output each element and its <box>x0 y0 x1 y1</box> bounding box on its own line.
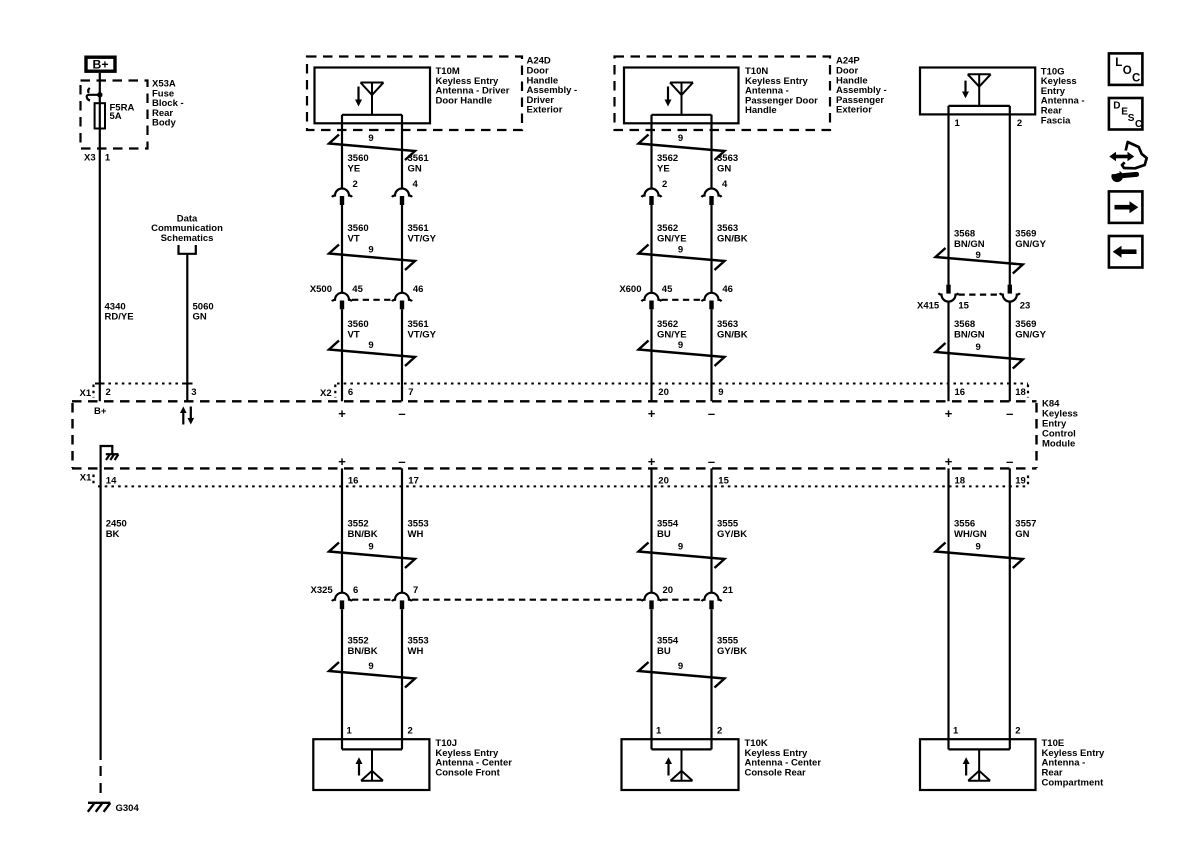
antenna T10K box <box>622 739 739 790</box>
X600 connector dashed line <box>662 299 702 301</box>
terminal pin <box>649 301 653 310</box>
svg-text:BN/GN: BN/GN <box>954 329 985 340</box>
terminal pin <box>400 301 404 310</box>
wire 3554 BU lower segment <box>650 609 652 749</box>
K84 module outline top edge <box>72 400 1037 402</box>
signal-out up arrow <box>667 763 669 776</box>
svg-text:–: – <box>398 454 405 469</box>
inline connector socket <box>642 189 662 197</box>
K84 module outline left edge <box>71 403 73 468</box>
svg-text:–: – <box>708 454 715 469</box>
wire 2450 BK ground run <box>99 468 101 760</box>
wire 3569 GN/GY upper segment <box>1009 106 1011 285</box>
svg-text:46: 46 <box>413 284 424 295</box>
wire 3563 GN upper segment <box>710 115 712 189</box>
svg-text:GN: GN <box>408 163 422 174</box>
svg-text:GN: GN <box>1015 529 1029 540</box>
svg-text:Exterior: Exterior <box>527 105 563 116</box>
wire 3553 WH upper segment <box>401 468 403 592</box>
svg-text:15: 15 <box>958 301 969 312</box>
svg-text:Door Handle: Door Handle <box>436 95 492 106</box>
svg-text:X415: X415 <box>917 301 940 312</box>
svg-text:2: 2 <box>106 387 111 398</box>
X415 connector dashed line <box>959 294 1000 296</box>
svg-text:1: 1 <box>953 726 959 737</box>
svg-text:9: 9 <box>368 340 373 351</box>
wire 3554 BU upper segment <box>650 468 652 592</box>
wire 3569 GN/GY lower segment <box>1009 301 1011 401</box>
antenna connector face <box>342 114 402 116</box>
wire 3560 VT lower segment <box>341 309 343 401</box>
svg-text:23: 23 <box>1020 301 1031 312</box>
K84 module outline bottom edge <box>72 467 1037 469</box>
svg-text:BN/BK: BN/BK <box>348 646 378 657</box>
svg-text:9: 9 <box>976 542 981 553</box>
nav icon: harness routing (car outline, double arrow, wrench) <box>1109 142 1146 182</box>
svg-text:C: C <box>1132 73 1140 85</box>
svg-text:1: 1 <box>105 153 111 164</box>
terminal pin <box>709 196 713 205</box>
svg-text:GN/YE: GN/YE <box>657 329 687 340</box>
svg-text:D: D <box>1113 101 1120 112</box>
svg-text:9: 9 <box>678 542 683 553</box>
svg-text:B+: B+ <box>94 406 107 417</box>
antenna T10M box <box>315 68 431 124</box>
svg-text:20: 20 <box>658 387 669 398</box>
svg-text:VT: VT <box>348 233 360 244</box>
wire 3552 BN/BK lower segment <box>341 609 343 749</box>
fuse F5RA element <box>95 103 105 128</box>
svg-text:9: 9 <box>976 342 981 353</box>
svg-text:7: 7 <box>413 585 418 596</box>
svg-text:3: 3 <box>191 387 196 398</box>
svg-text:Console Rear: Console Rear <box>745 768 807 779</box>
X1 end dots <box>1027 476 1029 488</box>
svg-text:O: O <box>1123 65 1132 77</box>
twisted pair symbol <box>936 343 1023 369</box>
wire serial data to K84 pin X1-3 (5060 GN) <box>186 254 188 401</box>
wire 3556 WH/GN upper segment <box>947 468 949 749</box>
svg-text:VT/GY: VT/GY <box>408 329 437 340</box>
svg-text:VT: VT <box>348 329 360 340</box>
antenna connector face <box>949 105 1010 107</box>
svg-text:1: 1 <box>955 118 961 129</box>
svg-text:Schematics: Schematics <box>161 233 214 244</box>
X2 separator dots <box>334 385 336 398</box>
svg-text:GN/GY: GN/GY <box>1015 329 1046 340</box>
twisted pair symbol <box>936 248 1023 274</box>
svg-text:+: + <box>648 454 656 469</box>
svg-text:GY/BK: GY/BK <box>717 529 747 540</box>
X500 socket <box>392 293 412 302</box>
door handle assembly A24D dashed outline <box>307 57 522 131</box>
K84 module outline right edge <box>1035 403 1037 468</box>
svg-text:2: 2 <box>662 179 667 190</box>
svg-text:X2: X2 <box>320 388 332 399</box>
wire 3561 VT/GY lower segment <box>401 309 403 401</box>
twisted pair symbol <box>936 543 1023 569</box>
terminal pin <box>340 196 344 205</box>
inline connector socket <box>392 189 412 197</box>
wire 3562 GN/YE middle segment <box>650 205 652 293</box>
svg-text:BN/GN: BN/GN <box>954 239 985 250</box>
antenna T10E box <box>920 739 1036 790</box>
X325 connector dashed line <box>352 599 392 601</box>
inline connector socket <box>702 189 722 197</box>
svg-text:BU: BU <box>657 646 671 657</box>
svg-text:18: 18 <box>955 475 966 486</box>
svg-text:X3: X3 <box>84 153 96 164</box>
svg-text:9: 9 <box>976 250 981 261</box>
twisted pair symbol <box>329 662 415 688</box>
svg-text:BU: BU <box>657 529 671 540</box>
wire 3557 GN upper segment <box>1009 468 1011 749</box>
svg-text:+: + <box>945 454 953 469</box>
svg-text:S: S <box>1128 113 1135 124</box>
svg-text:BK: BK <box>106 529 120 540</box>
svg-text:YE: YE <box>348 163 361 174</box>
fuse block X53A dashed outline <box>81 81 148 149</box>
wire 3568 BN/GN upper segment <box>947 106 949 285</box>
svg-text:2: 2 <box>1017 118 1022 129</box>
door handle assembly A24P dashed outline <box>615 57 831 131</box>
svg-text:Compartment: Compartment <box>1042 777 1105 788</box>
svg-text:G304: G304 <box>116 803 140 814</box>
twisted pair symbol <box>639 662 725 688</box>
twisted pair symbol <box>329 135 415 161</box>
svg-text:B+: B+ <box>93 57 109 71</box>
connector X1 top dotted line <box>95 383 188 385</box>
svg-text:+: + <box>648 406 656 421</box>
svg-text:BN/BK: BN/BK <box>348 529 378 540</box>
connector X1 bottom dotted line <box>98 485 1028 487</box>
wire 3562 YE upper segment <box>650 115 652 189</box>
svg-text:9: 9 <box>678 661 683 672</box>
antenna connector face <box>949 748 1010 750</box>
svg-text:GN/GY: GN/GY <box>1015 239 1046 250</box>
pin 2 terminal tick <box>98 383 105 385</box>
svg-text:4: 4 <box>722 179 728 190</box>
antenna T10J symbol (inverted) <box>361 749 383 780</box>
svg-text:6: 6 <box>348 387 353 398</box>
svg-text:9: 9 <box>368 542 373 553</box>
svg-text:Module: Module <box>1042 439 1075 450</box>
connector X2 dotted line <box>337 383 1028 385</box>
signal-out up arrow <box>358 763 360 776</box>
terminal pin <box>400 196 404 205</box>
nav icon LOC box <box>1109 53 1143 85</box>
svg-text:6: 6 <box>353 585 358 596</box>
wire 3568 BN/GN lower segment <box>947 301 949 401</box>
svg-text:GY/BK: GY/BK <box>717 646 747 657</box>
X325 socket <box>702 593 722 602</box>
antenna T10N symbol <box>670 83 693 115</box>
svg-text:7: 7 <box>408 387 413 398</box>
svg-text:+: + <box>338 406 346 421</box>
svg-text:15: 15 <box>718 475 729 486</box>
svg-text:Handle: Handle <box>745 105 777 116</box>
X325 socket <box>642 593 662 602</box>
svg-text:1: 1 <box>347 726 353 737</box>
svg-text:9: 9 <box>368 133 373 144</box>
svg-text:20: 20 <box>663 585 674 596</box>
wire 2450 BK off-page dashed <box>99 766 101 797</box>
svg-text:WH: WH <box>408 529 424 540</box>
svg-text:2: 2 <box>408 726 413 737</box>
twisted pair symbol <box>639 543 725 569</box>
svg-text:21: 21 <box>723 585 734 596</box>
svg-text:–: – <box>1006 454 1013 469</box>
svg-text:GN: GN <box>717 163 731 174</box>
svg-text:–: – <box>398 406 405 421</box>
X500 socket <box>332 293 352 302</box>
svg-text:9: 9 <box>368 661 373 672</box>
fuse block internal bus tap <box>88 88 90 93</box>
svg-text:16: 16 <box>955 387 966 398</box>
X415 pin 23 terminal <box>1008 285 1012 294</box>
svg-text:+: + <box>338 454 346 469</box>
antenna connector face <box>652 748 712 750</box>
svg-text:45: 45 <box>352 284 363 295</box>
antenna T10J box <box>313 739 429 790</box>
antenna T10M symbol <box>361 83 384 115</box>
wire 3552 BN/BK upper segment <box>341 468 343 592</box>
svg-text:C: C <box>1135 119 1142 130</box>
nav icon forward-arrow box <box>1109 191 1143 223</box>
svg-text:Body: Body <box>152 118 176 129</box>
inline connector socket <box>332 189 352 197</box>
svg-text:17: 17 <box>408 475 419 486</box>
svg-text:5A: 5A <box>110 111 122 122</box>
X1 separator dots <box>92 475 94 487</box>
wire B+ feed to K84 pin X1-2 (4340 RD/YE) <box>99 73 101 401</box>
svg-text:WH/GN: WH/GN <box>954 529 987 540</box>
svg-text:18: 18 <box>1015 387 1026 398</box>
antenna connector face <box>652 114 712 116</box>
svg-text:16: 16 <box>348 475 359 486</box>
antenna T10K symbol (inverted) <box>671 749 693 780</box>
svg-text:20: 20 <box>658 475 669 486</box>
svg-text:9: 9 <box>368 245 373 256</box>
X415 pin 15 terminal <box>946 285 950 294</box>
terminal pin <box>649 196 653 205</box>
svg-text:9: 9 <box>678 245 683 256</box>
svg-text:WH: WH <box>408 646 424 657</box>
svg-text:1: 1 <box>656 726 662 737</box>
svg-text:45: 45 <box>662 284 673 295</box>
svg-text:L: L <box>1115 57 1122 69</box>
terminal pin <box>340 600 344 609</box>
junction dot <box>97 92 102 97</box>
svg-text:14: 14 <box>106 475 117 486</box>
twisted pair symbol <box>639 245 725 271</box>
wire 3555 GY/BK upper segment <box>710 468 712 592</box>
svg-text:X1: X1 <box>80 388 92 399</box>
svg-text:GN/BK: GN/BK <box>717 233 748 244</box>
signal-in down arrow <box>667 87 669 101</box>
wire 3562 GN/YE lower segment <box>650 309 652 401</box>
wire 3560 VT middle segment <box>341 205 343 293</box>
terminal pin <box>709 301 713 310</box>
terminal pin <box>709 600 713 609</box>
wire 3555 GY/BK lower segment <box>710 609 712 749</box>
svg-text:46: 46 <box>722 284 733 295</box>
nav icon back-arrow box <box>1109 236 1143 268</box>
X2 end dots <box>1027 385 1029 398</box>
svg-text:YE: YE <box>657 163 670 174</box>
twisted pair symbol <box>639 135 725 161</box>
X500 connector dashed line <box>352 299 392 301</box>
svg-text:GN/BK: GN/BK <box>717 329 748 340</box>
wire 3561 GN upper segment <box>401 115 403 189</box>
antenna T10G symbol <box>968 74 991 106</box>
signal-in down arrow <box>964 81 966 93</box>
internal chassis ground symbol <box>106 454 119 460</box>
svg-text:GN/YE: GN/YE <box>657 233 687 244</box>
wire 3563 GN/BK middle segment <box>710 205 712 293</box>
terminal pin <box>340 301 344 310</box>
wire 3563 GN/BK lower segment <box>710 309 712 401</box>
wire 3561 VT/GY middle segment <box>401 205 403 293</box>
svg-text:–: – <box>708 406 715 421</box>
antenna T10G box <box>920 68 1035 115</box>
antenna T10N box <box>624 68 739 124</box>
data bus off-page bracket <box>179 245 196 254</box>
wire 3553 WH lower segment <box>401 609 403 749</box>
svg-text:9: 9 <box>718 387 723 398</box>
svg-text:+: + <box>945 406 953 421</box>
twisted pair symbol <box>329 245 415 271</box>
svg-text:X600: X600 <box>619 284 641 295</box>
ground G304 symbol <box>88 803 111 812</box>
twisted pair symbol <box>329 341 415 367</box>
X600 socket <box>642 293 662 302</box>
svg-text:X325: X325 <box>311 585 334 596</box>
wire 3560 YE upper segment <box>341 115 343 189</box>
nav icon DESC box <box>1109 98 1143 130</box>
signal-out up arrow <box>965 763 967 776</box>
bidirectional data arrows <box>182 412 184 425</box>
svg-text:2: 2 <box>717 726 722 737</box>
signal-in down arrow <box>357 87 359 101</box>
svg-text:2: 2 <box>1015 726 1020 737</box>
svg-text:RD/YE: RD/YE <box>105 312 134 323</box>
X415 socket <box>1000 293 1020 302</box>
svg-text:GN: GN <box>193 312 207 323</box>
X1 connector separator dots <box>92 385 94 398</box>
antenna T10E symbol (inverted) <box>968 749 990 780</box>
svg-text:9: 9 <box>678 133 683 144</box>
antenna connector face <box>342 748 402 750</box>
X325 socket <box>332 593 352 602</box>
svg-text:9: 9 <box>678 340 683 351</box>
power node B+ box <box>86 57 115 71</box>
svg-text:X1: X1 <box>80 473 92 484</box>
X325 socket <box>392 593 412 602</box>
terminal pin <box>400 600 404 609</box>
svg-text:4: 4 <box>413 179 419 190</box>
svg-text:X500: X500 <box>310 284 332 295</box>
svg-text:19: 19 <box>1015 475 1026 486</box>
svg-text:Exterior: Exterior <box>836 105 872 116</box>
twisted pair symbol <box>639 341 725 367</box>
ground hook inside module (pin X1-14) <box>101 446 113 468</box>
X600 socket <box>702 293 722 302</box>
X415 socket <box>939 293 959 302</box>
terminal pin <box>649 600 653 609</box>
svg-text:Console Front: Console Front <box>435 768 500 779</box>
svg-text:VT/GY: VT/GY <box>408 233 437 244</box>
twisted pair symbol <box>329 543 415 569</box>
svg-text:Fascia: Fascia <box>1041 115 1071 126</box>
svg-text:–: – <box>1006 406 1013 421</box>
svg-text:2: 2 <box>353 179 358 190</box>
pin 3 terminal tick <box>183 383 192 385</box>
